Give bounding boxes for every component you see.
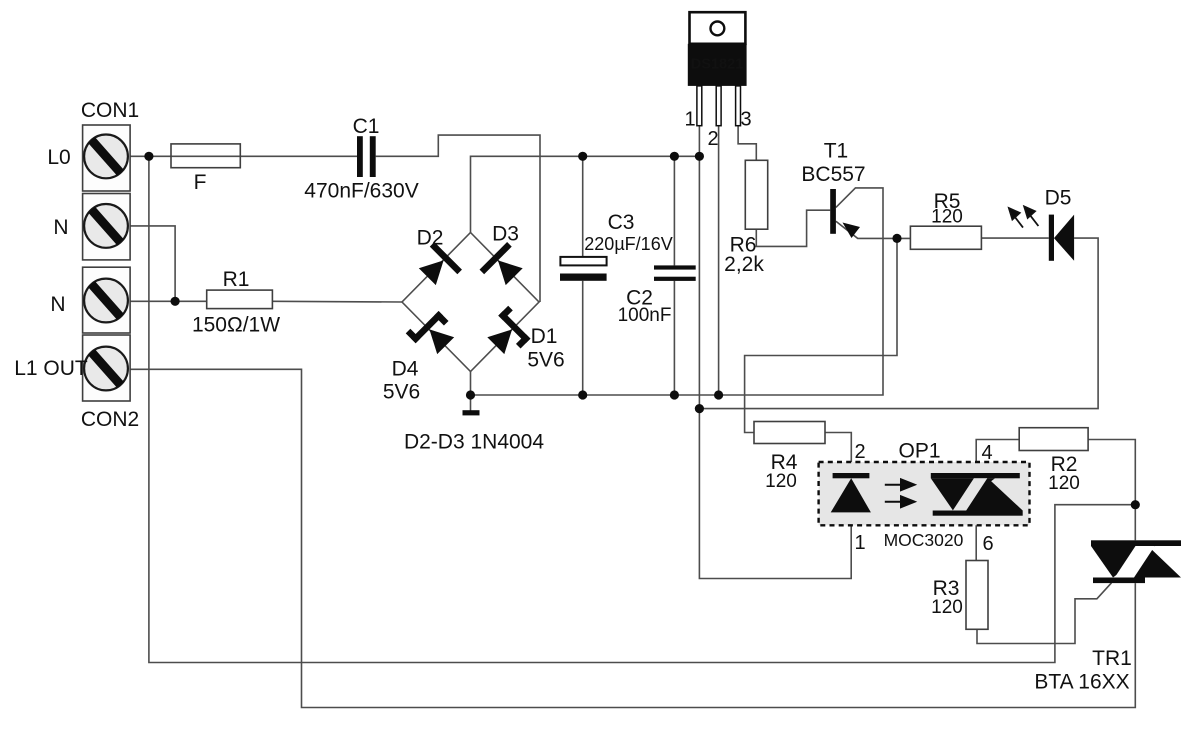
svg-text:C3: C3	[608, 211, 635, 234]
wire bridge top to +5V rail	[471, 156, 700, 232]
wire C2 bottom lead	[673, 281, 675, 395]
triac TR1	[1091, 540, 1181, 583]
svg-text:150Ω/1W: 150Ω/1W	[192, 314, 280, 337]
wire C1 right jog to bridge right corner	[376, 135, 540, 302]
svg-text:220µF/16V: 220µF/16V	[584, 234, 672, 254]
svg-text:2: 2	[854, 441, 865, 463]
svg-text:F: F	[194, 171, 207, 194]
wire OP1 pin4 to R2	[976, 440, 1019, 474]
transistor T1 BC557	[830, 189, 860, 238]
svg-text:DS1821: DS1821	[691, 57, 743, 73]
wire L0 to fuse	[130, 155, 357, 157]
svg-text:3: 3	[740, 109, 751, 131]
bridge rectifier diamond	[402, 233, 539, 372]
zener diode D1	[482, 306, 536, 360]
junction node dots	[144, 152, 1140, 510]
svg-text:2,2k: 2,2k	[724, 253, 764, 276]
svg-text:N: N	[50, 293, 65, 316]
fuse F	[171, 144, 240, 168]
wire R1 to bridge left corner	[272, 300, 402, 303]
svg-text:D4: D4	[392, 358, 419, 381]
svg-text:D1: D1	[531, 325, 558, 348]
svg-text:L0: L0	[47, 146, 70, 169]
screw L1 OUT	[84, 347, 128, 391]
svg-text:N: N	[53, 216, 68, 239]
wire R6 bottom to T1 base	[756, 210, 830, 246]
svg-text:D3: D3	[492, 223, 519, 246]
capacitor C1	[357, 136, 376, 177]
wire bridge bottom to ground rail, rail to T1 collector	[471, 188, 884, 395]
arrows inside OP1	[885, 479, 915, 507]
wire R3 bottom to TR1 gate	[977, 583, 1112, 644]
wire N screw2 down to node	[130, 226, 175, 301]
resistor R3	[966, 561, 988, 630]
diode D2	[414, 242, 462, 290]
wire C2 top lead	[673, 156, 675, 265]
connector CON1 terminal block	[83, 125, 131, 260]
wire L0 node down along bottom to TR1 MT2 node	[149, 156, 1135, 662]
svg-text:T1: T1	[824, 140, 849, 163]
zener diode D4	[406, 306, 460, 360]
svg-text:5V6: 5V6	[383, 381, 420, 404]
capacitor C2	[654, 265, 696, 281]
LED D5	[1049, 215, 1074, 261]
wire R5 to D5	[981, 237, 1048, 239]
svg-text:1: 1	[854, 532, 865, 554]
wire DS1821 pin2 to ground rail	[718, 126, 720, 395]
ground	[463, 410, 480, 415]
svg-text:C1: C1	[353, 115, 380, 138]
svg-text:120: 120	[1048, 473, 1080, 494]
svg-text:L1 OUT: L1 OUT	[14, 357, 88, 380]
optocoupler OP1 MOC3020	[819, 462, 1030, 525]
wire N screw3 to R1	[130, 300, 207, 302]
wire C3 bottom lead	[582, 281, 584, 395]
screw N upper	[84, 204, 128, 248]
svg-text:OP1: OP1	[898, 440, 940, 463]
wire OP1 pin6 to R3	[975, 516, 977, 561]
resistor R2	[1019, 428, 1088, 451]
svg-text:D2-D3 1N4004: D2-D3 1N4004	[404, 431, 544, 454]
wire D5 anode down to lower rail to pin1 node	[699, 238, 1098, 409]
connector CON2 terminal block	[83, 267, 131, 401]
wire R4 to OP1 pin2	[825, 433, 851, 474]
phototriac inside OP1	[931, 473, 1023, 516]
svg-text:BC557: BC557	[801, 163, 865, 186]
resistor R6	[745, 160, 767, 229]
wire DS1821 pin1 down to OP1 pin1	[699, 126, 851, 579]
LED D5 arrows	[1009, 207, 1039, 228]
svg-text:120: 120	[931, 597, 963, 618]
svg-text:1: 1	[684, 109, 695, 131]
svg-text:6: 6	[982, 533, 993, 555]
svg-text:CON2: CON2	[81, 408, 139, 431]
wire T1 emitter to node and R5	[836, 221, 911, 238]
wire R2 right down to TR1 MT2	[1088, 440, 1135, 541]
svg-text:5V6: 5V6	[527, 349, 564, 372]
capacitor C3 electrolytic	[560, 257, 607, 281]
svg-text:120: 120	[765, 471, 797, 492]
svg-text:TR1: TR1	[1092, 647, 1132, 670]
resistor R5	[910, 226, 981, 249]
LED inside OP1	[833, 473, 870, 478]
wire DS1821 pin3 to R6	[738, 126, 756, 161]
resistor R4	[754, 422, 825, 444]
svg-text:4: 4	[981, 442, 992, 464]
svg-text:MOC3020: MOC3020	[884, 530, 964, 550]
wire ground stub	[470, 395, 472, 411]
svg-text:100nF: 100nF	[618, 305, 672, 326]
screw L0	[84, 135, 128, 179]
wire TR1 MT1 to L1 OUT	[130, 369, 1135, 707]
diode D3	[480, 242, 528, 290]
sensor U1 DS1821 package	[688, 12, 747, 126]
svg-text:120: 120	[931, 207, 963, 228]
svg-text:2: 2	[707, 128, 718, 150]
svg-text:BTA 16XX: BTA 16XX	[1034, 671, 1129, 694]
svg-text:470nF/630V: 470nF/630V	[304, 180, 418, 203]
screw N lower	[84, 279, 128, 323]
wire C3 top lead	[582, 156, 584, 257]
svg-text:R1: R1	[223, 268, 250, 291]
svg-text:D2: D2	[417, 227, 444, 250]
wire emitter node down to R4	[745, 238, 897, 432]
svg-text:D5: D5	[1045, 187, 1072, 210]
resistor R1	[207, 290, 273, 309]
svg-text:CON1: CON1	[81, 99, 139, 122]
